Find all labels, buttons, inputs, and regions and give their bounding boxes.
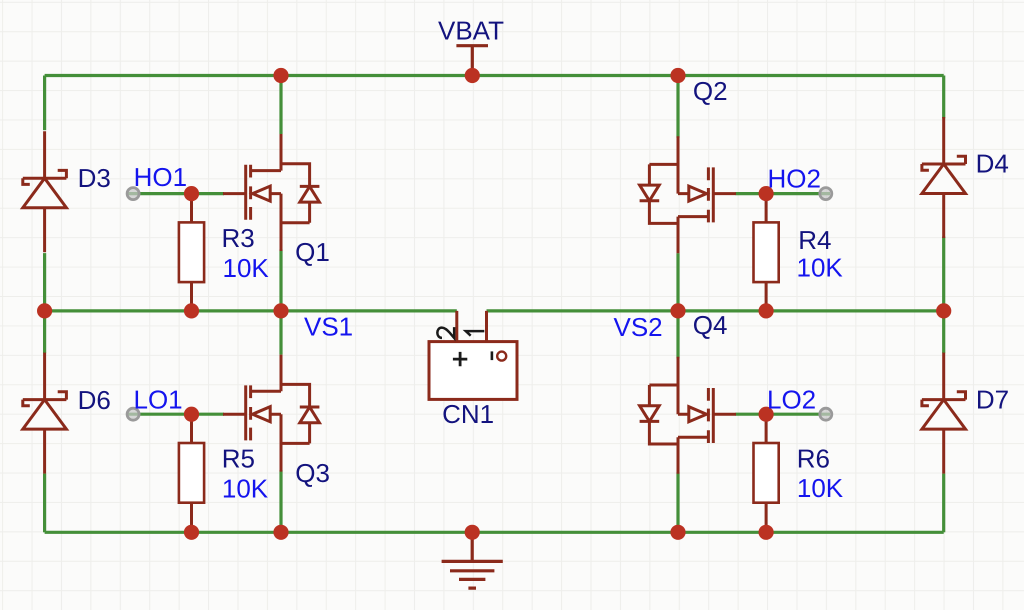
svg-text:D3: D3 [78,163,111,193]
transistor Q2 [640,136,736,253]
junction bottom rail at Q3 source [273,525,288,540]
power flag VBAT symbol [456,46,488,76]
junction top rail at VBAT [465,68,480,83]
wire right column D4 to mid rail [942,237,945,311]
wire LO1 net [128,413,224,416]
junction bottom rail at R6 [759,525,774,540]
pin number 2 of CN1 [437,327,454,338]
connector CN1 [429,311,517,400]
svg-text:Q3: Q3 [295,458,330,488]
svg-text:LO2: LO2 [767,385,816,415]
junction mid rail left column [37,303,52,318]
junction top rail at Q1 drain [273,68,288,83]
wire left column D6 to bottom rail [43,474,46,533]
wire left column upper (rail to D3) [43,76,46,131]
pin number 1 of CN1 [466,331,485,336]
resistor R3 [179,193,204,311]
junction bottom rail at ground [465,525,480,540]
wire HO1 net [128,192,224,195]
diode D3 [23,131,67,252]
wire Q4 drain [676,311,679,359]
svg-text:VBAT: VBAT [438,15,504,45]
diode D6 [23,353,67,474]
junction top rail at Q2 drain [670,68,685,83]
pin HO2 unconnected pin circle [820,188,832,200]
svg-text:Q2: Q2 [693,76,728,106]
svg-text:10K: 10K [797,252,844,282]
wire HO2 net [736,192,831,195]
junction HO2 at R4 top [759,186,774,201]
junction bottom rail at Q4 source [670,525,685,540]
wire Q3 source to bottom rail [279,470,282,532]
svg-text:D7: D7 [976,384,1009,414]
wire right column upper (rail to D4) [942,76,945,119]
wire mid rail left (VS1 net) [45,309,457,312]
ground [442,532,503,588]
svg-text:HO2: HO2 [768,164,821,194]
junction HO1 at R3 top [184,186,199,201]
wire LO2 net [736,413,831,416]
junction mid rail at Q2/Q4 (VS2) [670,303,685,318]
resistor R5 [179,414,204,532]
transistor Q4 [640,357,736,474]
wire right column mid rail to D7 [942,311,945,353]
diode D7 [922,353,966,474]
wire left column mid rail to D6 [43,311,46,353]
pin LO1 unconnected pin circle [127,408,139,420]
wire mid rail right (VS2 net) [487,309,944,312]
junction mid rail at R4 [759,303,774,318]
wire Q1 source to VS1 [279,249,282,311]
wire right column D7 to bottom rail [942,474,945,533]
wire bottom rail [45,531,944,534]
svg-text:VS1: VS1 [304,311,353,341]
svg-text:10K: 10K [797,473,844,503]
pin LO2 unconnected pin circle [820,408,832,420]
svg-text:R5: R5 [222,444,255,474]
junction LO2 at R6 top [759,407,774,422]
junction mid rail at R3 [184,303,199,318]
svg-text:Q1: Q1 [295,237,330,267]
svg-text:VS2: VS2 [614,312,663,342]
svg-text:Q4: Q4 [693,310,728,340]
junction mid rail at Q1/Q3 (VS1) [273,303,288,318]
wire Q2 source to VS2 [676,253,679,311]
wire left column D3 to mid rail [43,253,46,311]
svg-text:R6: R6 [797,444,830,474]
svg-text:LO1: LO1 [134,385,183,415]
transistor Q3 [223,355,319,472]
svg-text:HO1: HO1 [134,162,187,192]
junction LO1 at R5 top [184,407,199,422]
pin HO1 unconnected pin circle [127,188,139,200]
wire Q1 drain [279,76,282,135]
svg-text:10K: 10K [223,253,270,283]
svg-text:D4: D4 [976,148,1009,178]
diode D4 [922,117,966,238]
svg-text:R4: R4 [798,225,831,255]
wire Q4 source to bottom rail [676,472,679,532]
wire top rail [45,74,944,77]
svg-text:D6: D6 [78,385,111,415]
svg-text:10K: 10K [222,473,269,503]
wire Q3 drain [279,311,282,355]
svg-text:R3: R3 [222,223,255,253]
transistor Q1 [223,134,319,251]
resistor R4 [754,193,779,311]
junction bottom rail at R5 [184,525,199,540]
wire Q2 drain [676,76,679,138]
junction mid rail right column [936,303,951,318]
resistor R6 [754,414,779,532]
svg-text:CN1: CN1 [442,399,494,429]
